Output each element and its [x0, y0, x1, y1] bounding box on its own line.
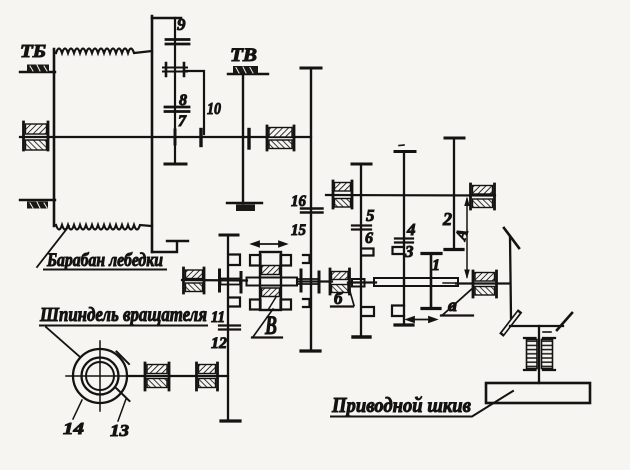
svg-text:5: 5: [366, 206, 375, 225]
svg-text:1: 1: [432, 257, 440, 274]
gear tick on main shaft at ТВ shaft: [247, 130, 250, 149]
ТВ vertical shaft: [242, 74, 244, 203]
gear on lower shaft at 11/12: [220, 270, 242, 292]
bearing lower-mid: [330, 269, 350, 294]
shaft 3/4 vertical: [395, 145, 415, 325]
gear 9: [166, 15, 189, 44]
shaft 2 vertical: [442, 138, 464, 250]
sliding double-gear block: [250, 252, 291, 310]
svg-text:2: 2: [442, 209, 452, 229]
pulley shaft bearing: [524, 338, 555, 370]
ТВ brake pad: [228, 66, 268, 74]
shaft 5/6 vertical: [352, 164, 371, 337]
spline shaft rect at sliding block: [247, 278, 298, 286]
hub of gear 6 on lower shaft: [352, 279, 365, 287]
label Барабан лебедки: [37, 226, 166, 271]
label в flag: [252, 309, 282, 340]
spline shaft long rect: [374, 278, 458, 286]
lower main shaft: [182, 280, 509, 284]
pulley shaft top line: [510, 325, 563, 327]
dimension line А: [452, 197, 472, 280]
teeth on shaft 5/6 lower: [362, 307, 374, 316]
svg-text:3: 3: [404, 242, 414, 261]
bearing upper-right-left: [333, 181, 352, 208]
svg-text:7: 7: [178, 113, 187, 130]
ТВ shaft bottom support: [227, 203, 262, 211]
upper right shaft: [326, 194, 495, 197]
svg-text:14: 14: [63, 419, 84, 438]
coupling 3/4: [395, 220, 416, 261]
coupling below gear 9: [163, 63, 187, 76]
brake pad upper: [20, 65, 55, 73]
svg-text:15: 15: [291, 222, 306, 239]
drive pulley rectangle: [486, 383, 590, 403]
coupling 5/6: [352, 206, 375, 247]
spline tick SE: [116, 388, 130, 401]
gear on lower shaft at tall line: [297, 270, 319, 292]
coupling 11/12: [211, 309, 240, 352]
svg-text:10: 10: [207, 99, 221, 118]
svg-text:6: 6: [365, 230, 373, 247]
belt line: [510, 237, 511, 318]
label Приводной шкив: [331, 391, 513, 417]
drum right flange / shaft line: [151, 16, 154, 252]
bearing spindle-2: [197, 363, 218, 390]
teeth on shaft 11/12 lower: [230, 298, 240, 307]
bearing upper-right-right: [471, 184, 495, 209]
rope hook at drum lower right: [152, 241, 188, 252]
coupling 16/15: [291, 193, 323, 239]
pinion tick on main shaft at gear-9 shaft: [174, 130, 177, 144]
teeth on tall line upper: [303, 255, 310, 263]
travel arrow over sliding block: [252, 242, 286, 247]
teeth on tall line lower: [303, 299, 310, 307]
belt lower pulley tick (outlined): [503, 313, 519, 333]
bearing on main shaft right: [267, 126, 294, 150]
svg-text:16: 16: [291, 193, 306, 210]
tall center shaft 15/16: [301, 68, 321, 351]
leader to label в: [268, 297, 276, 310]
main upper shaft: [20, 136, 311, 138]
shaft 11/12 vertical: [220, 235, 240, 421]
svg-text:13: 13: [110, 421, 130, 440]
label б flag: [331, 285, 354, 309]
svg-text:4: 4: [406, 220, 416, 239]
belt upper pulley tick: [504, 228, 519, 248]
svg-text:В: В: [264, 311, 277, 340]
svg-text:11: 11: [211, 309, 225, 326]
bearing lower-left: [184, 268, 205, 293]
gear 1: [422, 254, 441, 309]
travel arrow below shaft 3/4: [407, 317, 436, 322]
small key mark: [543, 331, 551, 333]
leader 14: [73, 400, 82, 419]
tooth on shaft 5/6: [362, 249, 374, 256]
svg-text:Барабан лебедки: Барабан лебедки: [46, 250, 163, 271]
svg-text:ТБ: ТБ: [20, 41, 46, 61]
svg-text:ТВ: ТВ: [230, 45, 257, 66]
svg-text:8: 8: [179, 92, 187, 109]
svg-text:12: 12: [211, 335, 227, 352]
bearing lower-right: [473, 271, 497, 297]
svg-text:а: а: [448, 295, 457, 315]
leader 13: [118, 399, 126, 421]
gear-9 shaft: [152, 18, 186, 164]
label Шпиндель вращателя: [39, 304, 207, 357]
pulley right tick: [557, 313, 572, 330]
label а flag: [441, 287, 474, 316]
spindle circles: [66, 341, 136, 411]
svg-text:Приводной шкив: Приводной шкив: [331, 393, 471, 417]
gear 8 / 7: [165, 92, 189, 130]
bearing spindle-1: [145, 363, 169, 390]
bearing on drum shaft left: [24, 122, 49, 150]
pulley vertical shaft: [538, 326, 540, 383]
winch drum body: [54, 49, 152, 230]
gear 10 link: [184, 71, 221, 146]
teeth on shaft 11/12 upper: [230, 255, 240, 266]
spline tick NE: [117, 352, 130, 365]
tooth on shaft 3/4: [393, 247, 405, 254]
teeth on shaft 3/4 lower: [392, 306, 404, 317]
svg-text:Шпиндель вращателя: Шпиндель вращателя: [39, 304, 207, 326]
spindle shaft: [127, 375, 228, 377]
svg-text:9: 9: [177, 15, 186, 34]
brake pad lower: [20, 200, 55, 209]
